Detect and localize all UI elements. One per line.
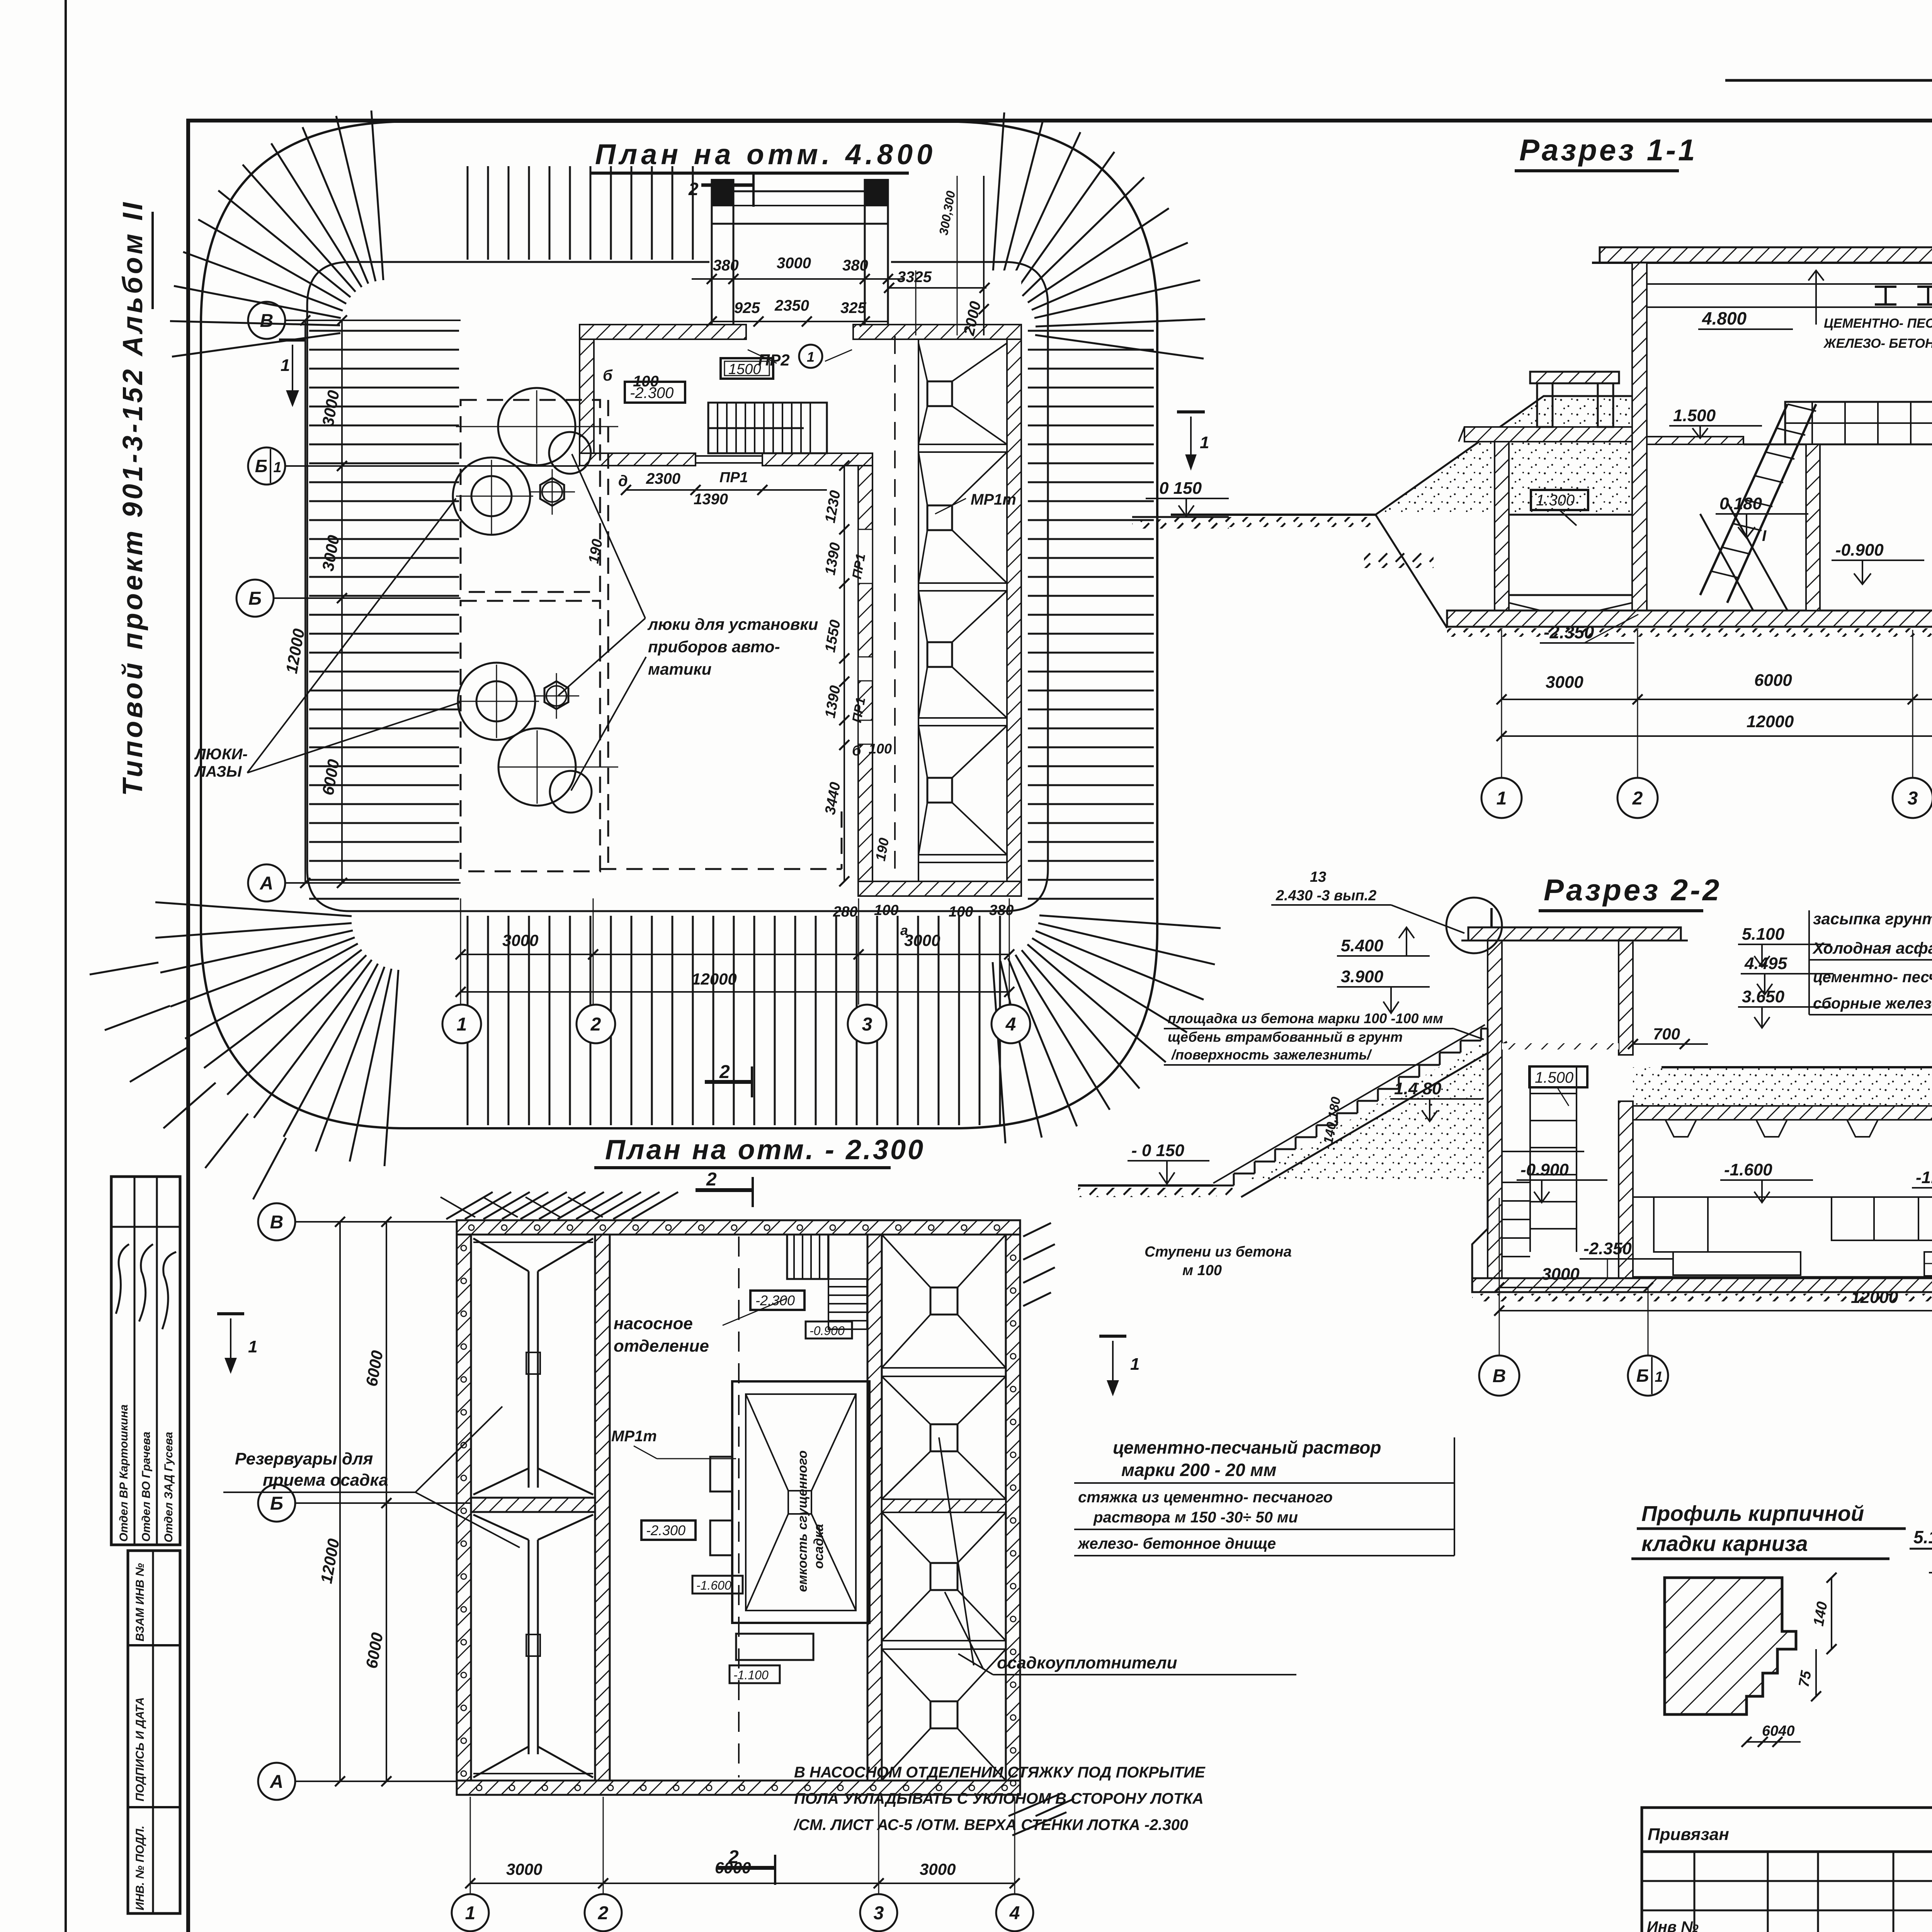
svg-text:/СМ. ЛИСТ АС-5 /ОТМ. ВЕРХА СТ: /СМ. ЛИСТ АС-5 /ОТМ. ВЕРХА СТЕНКИ ЛОТКА …: [793, 1816, 1188, 1833]
plan 4.800 axis row В: [285, 320, 461, 321]
section 2-2 ground line left of stairs: [1078, 1184, 1213, 1187]
svg-text:3325: 3325: [897, 269, 932, 286]
cornice profile dim 75: [1815, 1649, 1817, 1696]
cornice profile hatched shape: [1665, 1578, 1796, 1714]
svg-text:Б: Б: [1636, 1366, 1649, 1386]
svg-text:Б: Б: [255, 456, 268, 476]
plan -2.300 pump boxes: [710, 1457, 732, 1492]
svg-text:ЖЕЛЕЗО- БЕТОННАЯ ПЛИТА 100мм: ЖЕЛЕЗО- БЕТОННАЯ ПЛИТА 100мм: [1823, 336, 1932, 351]
svg-text:приема осадка: приема осадка: [263, 1471, 388, 1490]
plan 4.800 entrance upper platform lines: [712, 190, 888, 192]
section 2-2 tower left wall: [1488, 939, 1502, 1279]
section 1-1 axis extension lines: [1501, 630, 1502, 777]
svg-text:4.495: 4.495: [1744, 954, 1787, 973]
section 2-2 dim 12000: [1499, 1310, 1932, 1311]
plan 4.800 dim 2000 rotated: [983, 176, 985, 335]
section 2-2 tower base footing: [1472, 1029, 1488, 1278]
svg-text:380: 380: [989, 902, 1014, 918]
plan 4.800 axis circle 2: [577, 1005, 615, 1043]
section 2-2 hall ceiling ribs: [1665, 1120, 1696, 1137]
svg-text:3: 3: [1908, 788, 1918, 809]
section 1-1 excavation slope left: [1376, 515, 1447, 628]
section 1-1 level frame 1.300: [1531, 490, 1588, 510]
plan 4.800 axis circle 3: [848, 1005, 886, 1043]
svg-text:-1.100: -1.100: [1916, 1168, 1932, 1187]
svg-text:3000: 3000: [777, 255, 811, 272]
svg-text:-0.900: -0.900: [810, 1324, 845, 1338]
plan 4.800 entrance dims 925 2350 325: [712, 321, 888, 322]
plan 4.800 left berm hatch lines: [309, 330, 459, 332]
section 2-2 embankment over hall with dots: [1633, 1067, 1932, 1187]
svg-text:-1.100: -1.100: [733, 1668, 769, 1682]
section 2-2 hall floor internals: [1633, 1196, 1932, 1198]
svg-text:ПОЛА УКЛАДЫВАТЬ С УКЛОНОМ: ПОЛА УКЛАДЫВАТЬ С УКЛОНОМ В СТОРОНУ ЛОТК…: [794, 1790, 1204, 1807]
svg-text:1.300: 1.300: [1536, 492, 1575, 509]
plan -2.300 level frame -2.300: [750, 1291, 804, 1310]
svg-text:-2.350: -2.350: [1544, 622, 1594, 642]
svg-text:осадка: осадка: [811, 1524, 826, 1569]
plan -2.300 exterior hatch right: [1023, 1223, 1055, 1306]
plan -2.300 stair top: [787, 1235, 828, 1279]
plan 4.800 entrance corridor walls: [711, 179, 713, 325]
plan -2.300 hall right wall: [867, 1235, 882, 1781]
left margin lower strip boxes: [128, 1551, 180, 1913]
plan 4.800 sludge cells left edge line: [918, 339, 919, 881]
svg-text:12000: 12000: [282, 627, 308, 675]
svg-text:1500: 1500: [728, 361, 761, 378]
svg-text:0.180: 0.180: [1719, 494, 1762, 513]
svg-text:осадкоуплотнители: осадкоуплотнители: [997, 1653, 1177, 1672]
section 1-1 tank chamber left walls: [1495, 427, 1509, 611]
svg-text:ЦЕМЕНТНО- ПЕСЧАНЫЙР-Р200-30 мм: ЦЕМЕНТНО- ПЕСЧАНЫЙР-Р200-30 мм: [1824, 316, 1932, 331]
svg-text:2: 2: [688, 179, 699, 199]
plan 4.800 instrument nut symbol top: [540, 478, 564, 506]
plan -2.300 emkost outer rect: [732, 1381, 869, 1623]
annex box Привязан: [1642, 1808, 1932, 1852]
svg-text:4: 4: [1009, 1903, 1020, 1923]
svg-text:стяжка из цементно- песчаног: стяжка из цементно- песчаного: [1078, 1489, 1333, 1506]
plan 4.800 hall dashed floor edge: [600, 868, 842, 870]
plan 4.800 right berm hatch lines: [1028, 330, 1154, 332]
svg-text:МР1т: МР1т: [971, 491, 1016, 508]
section 1-1 tank chamber top slab: [1464, 427, 1632, 442]
svg-text:3.900: 3.900: [1341, 967, 1384, 986]
svg-text:отделение: отделение: [614, 1337, 709, 1355]
plan -2.300 tank divider band: [471, 1498, 595, 1512]
section 2-2 tower roof slab: [1468, 927, 1681, 940]
svg-text:1: 1: [281, 356, 290, 375]
plan 4.800 hatch-manhole circle group bottom: [458, 663, 535, 740]
svg-text:площадка из бетона марки 100: площадка из бетона марки 100 -100 мм: [1168, 1010, 1443, 1026]
plan 4.800 stair block: [708, 403, 827, 453]
svg-text:цементно- песчаная стяжка М5: цементно- песчаная стяжка М50- 30 мм: [1813, 969, 1932, 986]
section 2-2 lower sludge boxes: [1924, 1252, 1932, 1276]
cornice profile dim 140: [1831, 1578, 1832, 1649]
plan 4.800 machine hall bottom wall: [858, 881, 1021, 896]
svg-text:1: 1: [273, 459, 281, 476]
plan -2.300 level frame -1.100: [730, 1665, 780, 1683]
svg-text:12000: 12000: [1747, 712, 1794, 731]
svg-text:б: б: [603, 367, 613, 384]
svg-text:12000: 12000: [1851, 1288, 1898, 1307]
svg-text:сборные железобетонные пли: сборные железобетонные плиты покрытия: [1813, 995, 1932, 1012]
section 1-1 dim chain 3000 6000 3000: [1502, 699, 1932, 700]
plan -2.300 emkost funnel: [746, 1394, 788, 1611]
svg-text:Холодная асфальтовая масти: Холодная асфальтовая мастика - 5мм: [1812, 939, 1932, 957]
plan -2.300 axis В: [348, 1221, 457, 1223]
svg-text:1.500: 1.500: [1673, 406, 1716, 425]
svg-text:ЛЮКИ-: ЛЮКИ-: [194, 746, 248, 763]
svg-text:3000: 3000: [904, 931, 940, 949]
section 2-2 embankment surface line: [1662, 1067, 1932, 1187]
section 2-2 tower interior stair: [1530, 1066, 1577, 1067]
svg-text:Инв №: Инв №: [1647, 1918, 1699, 1932]
plan -2.300 level frame -0.900: [806, 1321, 852, 1338]
svg-text:-2.300: -2.300: [755, 1293, 795, 1308]
svg-text:Профиль кирпичной: Профиль кирпичной: [1641, 1501, 1864, 1526]
plan -2.300 axis circle 4: [996, 1894, 1033, 1931]
svg-text:Отдел ЗАД Гусева: Отдел ЗАД Гусева: [162, 1432, 175, 1543]
svg-text:300,300: 300,300: [936, 190, 958, 236]
svg-text:ПР1: ПР1: [719, 469, 748, 486]
section 1-1 lower stair flight: [1727, 502, 1787, 611]
plan 4.800 level frame -2.300: [625, 382, 685, 403]
section 2-2 level 1.500 frame: [1529, 1066, 1587, 1087]
svg-text:- 0 150: - 0 150: [1131, 1141, 1185, 1160]
plan 4.800 level frame 1500: [721, 358, 773, 379]
plan 4.800 berm crest inner boundary: [307, 262, 1048, 911]
svg-text:1: 1: [1200, 433, 1209, 452]
svg-text:1: 1: [248, 1337, 257, 1356]
section 2-2 tower lower left steps: [1502, 1182, 1530, 1183]
plan 4.800 building interior white mask: [580, 270, 1021, 896]
svg-text:100: 100: [874, 902, 898, 918]
svg-text:Отдел ВО Грачева: Отдел ВО Грачева: [140, 1432, 153, 1542]
svg-text:1: 1: [457, 1014, 467, 1035]
plan -2.300 cell funnels: [930, 1287, 957, 1315]
plan 4.800 bottom-left corner fan rays: [384, 970, 398, 1166]
svg-text:емкость сгущенного: емкость сгущенного: [795, 1450, 810, 1592]
plan 4.800 section line 1 marker right: [1177, 410, 1205, 413]
section 1-1 ground line left: [1171, 514, 1376, 516]
plan 4.800 axis columns extension lines: [460, 898, 461, 1005]
plan -2.300 lower tank internals: [528, 1540, 530, 1754]
svg-text:75: 75: [1796, 1669, 1815, 1689]
svg-text:люки для установки: люки для установки: [647, 615, 818, 633]
plan 4.800 earth pad outer boundary: [201, 122, 1157, 1128]
left margin department table: [111, 1177, 180, 1545]
svg-text:1: 1: [1655, 1369, 1663, 1385]
svg-text:раствора м 150 -30÷ 50 ми: раствора м 150 -30÷ 50 ми: [1093, 1509, 1298, 1526]
svg-text:Привязан: Привязан: [1648, 1825, 1729, 1844]
plan 4.800 tanks dashed outline lower: [461, 601, 600, 871]
svg-text:Б: Б: [270, 1493, 283, 1514]
section 1-1 interior stair: [1700, 404, 1787, 595]
svg-text:100: 100: [869, 741, 892, 757]
plan -2.300 wall panel joint dots: [469, 1225, 474, 1230]
plan -2.300 upper tank internals: [528, 1271, 530, 1488]
svg-text:I: I: [1762, 527, 1767, 544]
svg-text:13: 13: [1310, 869, 1326, 885]
section 1-1 roof I-beams row: [1647, 283, 1932, 285]
plan -2.300 axis Б: [295, 1502, 471, 1504]
section 2-2 tower parapet mark: [1490, 908, 1493, 927]
plan 4.800 top-left corner fan rays: [172, 333, 340, 357]
section 1-1 embankment outline left: [1376, 396, 1632, 515]
section 2-2 axis circle Б1: [1648, 1287, 1649, 1355]
svg-text:6000: 6000: [1754, 671, 1792, 690]
svg-text:4: 4: [1005, 1014, 1016, 1035]
svg-text:3000: 3000: [1546, 673, 1583, 692]
svg-text:6000: 6000: [362, 1349, 387, 1388]
svg-text:Разрез 1-1: Разрез 1-1: [1519, 133, 1697, 167]
plan 4.800 axis circle 4: [992, 1005, 1030, 1043]
plan 4.800 bottom berm hatch lines: [467, 916, 469, 1125]
plan 4.800 sludge cells dividers: [918, 444, 1007, 445]
svg-text:ВЗАМ ИНВ №: ВЗАМ ИНВ №: [134, 1563, 146, 1641]
svg-text:-1.600: -1.600: [696, 1578, 731, 1592]
section 1-1 axis circle 3: [1893, 778, 1932, 818]
svg-text:2: 2: [1632, 788, 1643, 809]
section 1-1 dim 12000: [1502, 735, 1932, 737]
svg-text:4.800: 4.800: [1702, 308, 1747, 328]
svg-text:В: В: [260, 311, 274, 331]
svg-text:3: 3: [862, 1014, 872, 1035]
svg-text:д: д: [618, 473, 628, 490]
svg-text:/поверхность зажелезнить/: /поверхность зажелезнить/: [1171, 1047, 1372, 1063]
svg-text:щебень втрамбованный в грунт: щебень втрамбованный в грунт: [1168, 1029, 1403, 1045]
plan -2.300 bottom dim chain: [470, 1883, 1015, 1884]
svg-text:б: б: [852, 743, 862, 759]
plan -2.300 outer wall right: [1006, 1235, 1020, 1781]
plan -2.300 outer wall left: [457, 1235, 471, 1781]
plan 4.800 right interior dim chain: [844, 466, 845, 881]
svg-text:матики: матики: [648, 660, 711, 678]
svg-text:325: 325: [840, 299, 866, 316]
svg-text:Разрез 2-2: Разрез 2-2: [1544, 873, 1721, 907]
svg-text:140: 140: [1811, 1600, 1831, 1628]
section 2-2 tower right wall: [1619, 939, 1633, 1055]
plan 4.800 tanks dashed outline upper: [461, 400, 600, 592]
svg-text:12000: 12000: [317, 1537, 343, 1585]
plan 4.800 left dim chain: [341, 320, 343, 883]
section 2-2 hall ceiling slab: [1633, 1106, 1932, 1120]
svg-text:железо- бетонное днище: железо- бетонное днище: [1077, 1535, 1276, 1552]
plan -2.300 axis circle 1: [452, 1894, 489, 1931]
sheet left edge line: [65, 0, 67, 1932]
svg-text:5.100: 5.100: [1913, 1527, 1932, 1547]
svg-text:В: В: [270, 1212, 284, 1233]
svg-text:В: В: [1493, 1366, 1506, 1386]
plan 4.800 sludge cell funnels: [927, 381, 952, 406]
svg-text:-2.350: -2.350: [1583, 1239, 1632, 1258]
svg-text:Типовой проект 901-3-152: Типовой проект 901-3-152 Альбом II: [117, 200, 148, 796]
section 2-2 pier right of tower: [1619, 1101, 1633, 1279]
svg-text:12000: 12000: [692, 970, 737, 988]
svg-text:Б: Б: [248, 588, 262, 609]
svg-text:3.650: 3.650: [1742, 987, 1785, 1006]
plan 4.800 superstructure left wall: [580, 339, 594, 454]
plan -2.300 cells left edge: [881, 1235, 883, 1781]
section 1-1 roof slab: [1600, 247, 1932, 263]
svg-text:марки 200 - 20 мм: марки 200 - 20 мм: [1121, 1460, 1277, 1480]
svg-text:засыпка грунтом - hмм: засыпка грунтом - hмм: [1813, 910, 1932, 928]
svg-text:-1.600: -1.600: [1724, 1160, 1772, 1179]
plan 4.800 top-right corner fan rays: [992, 112, 1004, 282]
svg-text:кладки карниза: кладки карниза: [1641, 1531, 1808, 1556]
svg-text:3000: 3000: [920, 1860, 956, 1878]
svg-text:1: 1: [465, 1903, 476, 1923]
svg-text:-0.900: -0.900: [1835, 541, 1884, 560]
svg-text:700: 700: [1653, 1025, 1680, 1043]
svg-text:0 150: 0 150: [1159, 479, 1202, 498]
plan -2.300 stair lower flight: [828, 1279, 867, 1329]
plan 4.800 instrument nut symbol bottom: [544, 681, 568, 709]
plan -2.300 cell divider 2 hatched: [882, 1499, 1006, 1512]
svg-text:2.430 -3 вып.2: 2.430 -3 вып.2: [1276, 888, 1376, 904]
svg-text:3000: 3000: [1542, 1265, 1580, 1284]
section 2-2 base slab: [1472, 1278, 1932, 1292]
plan 4.800 superstructure top wall: [580, 325, 746, 339]
svg-text:6000: 6000: [362, 1631, 387, 1670]
plan -2.300 exterior hatch top-left: [440, 1192, 678, 1219]
plan 4.800 bottom dim chain row1: [461, 954, 1009, 955]
svg-text:2: 2: [706, 1169, 717, 1190]
section 1-1 interior platform at 1.500 right: [1785, 402, 1932, 444]
plan -2.300 axis circle 3: [860, 1894, 897, 1931]
plan 4.800 machine hall right wall: [858, 466, 872, 881]
plan -2.300 axis А: [295, 1781, 457, 1782]
svg-text:2: 2: [728, 1847, 739, 1867]
plan 4.800 top berm hatch lines: [467, 166, 469, 260]
plan -2.300 tank dividing wall vertical: [595, 1235, 610, 1781]
svg-text:1: 1: [1497, 788, 1507, 809]
svg-text:2300: 2300: [646, 470, 680, 487]
section 1-1 base slab: [1447, 611, 1932, 627]
section 1-1 embankment body with sand dots: [1376, 396, 1632, 515]
svg-text:925: 925: [734, 299, 760, 316]
svg-text:цементно-песчаный раствор: цементно-песчаный раствор: [1113, 1437, 1381, 1458]
plan -2.300 hall centre dashed line: [738, 1236, 740, 1777]
section 2-2 dim 3000: [1499, 1287, 1648, 1288]
section 2-2 tower interior floors: [1502, 1044, 1619, 1046]
svg-text:2: 2: [590, 1014, 601, 1035]
plan 4.800 bottom dim chain row2 12000: [461, 991, 1009, 993]
svg-text:3: 3: [874, 1903, 884, 1923]
svg-text:насосное: насосное: [614, 1314, 693, 1333]
svg-text:В НАСОСНОМ ОТДЕЛЕНИИ СТЯЖК: В НАСОСНОМ ОТДЕЛЕНИИ СТЯЖКУ ПОД ПОКРЫТИЕ: [794, 1764, 1206, 1781]
section 1-1 mid wall column: [1806, 444, 1820, 611]
plan 4.800 gallery centre dashed line: [894, 336, 896, 877]
svg-text:м 100: м 100: [1182, 1262, 1222, 1279]
svg-text:380: 380: [713, 257, 739, 274]
plan 4.800 entrance dims 380 3000 380: [692, 278, 904, 280]
svg-text:3000: 3000: [506, 1860, 542, 1878]
plan -2.300 section mark 1 left: [217, 1312, 244, 1315]
section 2-2 axis circle В: [1499, 1198, 1500, 1355]
plan -2.300 axis circle 2: [585, 1894, 622, 1931]
svg-text:-2.300: -2.300: [646, 1522, 685, 1538]
annex flat table: [1642, 1852, 1932, 1932]
department table signatures: [116, 1244, 129, 1314]
plan -2.300 exterior hatch bottom-right: [1009, 1793, 1074, 1835]
plan 4.800 hatch-manhole circle group top: [498, 388, 575, 465]
top fold line: [1725, 79, 1932, 82]
plan 4.800 bottom-right corner fan rays: [1039, 915, 1221, 928]
svg-text:1: 1: [1130, 1355, 1139, 1374]
section 1-1 neck on top of tank chamber: [1537, 383, 1553, 427]
svg-text:2350: 2350: [774, 297, 809, 314]
svg-text:ИНВ. № ПОДЛ.: ИНВ. № ПОДЛ.: [134, 1826, 146, 1910]
plan -2.300 leader насосное to stair: [723, 1298, 787, 1325]
svg-text:ЛАЗЫ: ЛАЗЫ: [194, 763, 242, 780]
plan 4.800 dim 3325: [889, 287, 986, 289]
section 1-1 axis circle 1: [1481, 778, 1522, 818]
svg-text:6000: 6000: [319, 758, 343, 796]
section 2-2 left approach stair: [1213, 1029, 1481, 1185]
plan -2.300 level frame -1.600: [692, 1576, 743, 1594]
section 1-1 axis circle 2: [1617, 778, 1658, 818]
svg-text:5.400: 5.400: [1341, 936, 1384, 955]
svg-text:приборов авто-: приборов авто-: [648, 638, 780, 656]
svg-text:280: 280: [833, 904, 857, 920]
svg-text:100: 100: [633, 373, 659, 390]
svg-text:1.4 80: 1.4 80: [1394, 1079, 1442, 1098]
svg-text:А: А: [260, 873, 274, 894]
svg-text:Ступени из бетона: Ступени из бетона: [1145, 1244, 1292, 1260]
plan -2.300 cell divider 1: [882, 1367, 1006, 1369]
svg-text:2: 2: [598, 1903, 609, 1923]
svg-text:МР1т: МР1т: [611, 1428, 657, 1445]
svg-text:1: 1: [807, 349, 815, 365]
section 1-1 floor slab level 1.500: [1647, 437, 1743, 444]
svg-text:План на отм. 4.800: План на отм. 4.800: [595, 138, 936, 170]
section 1-1 tank chamber floor: [1509, 594, 1632, 596]
plan -2.300 outer wall top: [457, 1220, 1020, 1235]
plan -2.300 outer wall bottom: [457, 1781, 1020, 1795]
plan 4.800 axis row Б: [274, 597, 461, 599]
plan 4.800 building outer right wall: [1007, 339, 1021, 881]
svg-text:5.100: 5.100: [1742, 925, 1785, 944]
cornice profile dims 60 40: [1662, 1720, 1801, 1721]
svg-text:1390: 1390: [694, 491, 728, 508]
svg-text:2: 2: [719, 1062, 730, 1082]
svg-text:100: 100: [949, 904, 973, 920]
svg-text:А: А: [270, 1772, 284, 1792]
plan -2.300 axis extension lines bottom: [470, 1797, 471, 1894]
section 1-1 tank chamber ground floor: [1509, 514, 1632, 516]
svg-text:ПОДПИСЬ И ДАТА: ПОДПИСЬ И ДАТА: [134, 1697, 146, 1801]
svg-text:380: 380: [842, 257, 868, 274]
plan -2.300 cell divider 3: [882, 1640, 1006, 1641]
svg-text:Резервуары для: Резервуары для: [235, 1449, 373, 1468]
plan 4.800 axis row Б1: [285, 465, 580, 467]
svg-text:План на отм. - 2.300: План на отм. - 2.300: [605, 1134, 925, 1165]
plan -2.300 level frame -2.300 second: [641, 1520, 696, 1540]
svg-text:Отдел ВР Картошкина: Отдел ВР Картошкина: [117, 1405, 130, 1542]
plan -2.300 left dim chain: [386, 1222, 387, 1781]
svg-text:3000: 3000: [502, 931, 538, 949]
section 1-1 superstructure left wall: [1632, 263, 1647, 611]
plan 4.800 entrance section mark 2 top: [701, 184, 753, 187]
plan -2.300 section mark 1 right: [1099, 1335, 1126, 1338]
plan 4.800 superstructure bottom wall with door ПР1: [580, 453, 696, 466]
section 2-2 crest to tower: [1481, 1028, 1491, 1030]
svg-text:-0.900: -0.900: [1520, 1160, 1569, 1179]
plan 4.800 axis circle 1: [442, 1005, 481, 1043]
svg-text:1.500: 1.500: [1535, 1069, 1573, 1086]
plan 4.800 axis row А: [285, 882, 461, 884]
